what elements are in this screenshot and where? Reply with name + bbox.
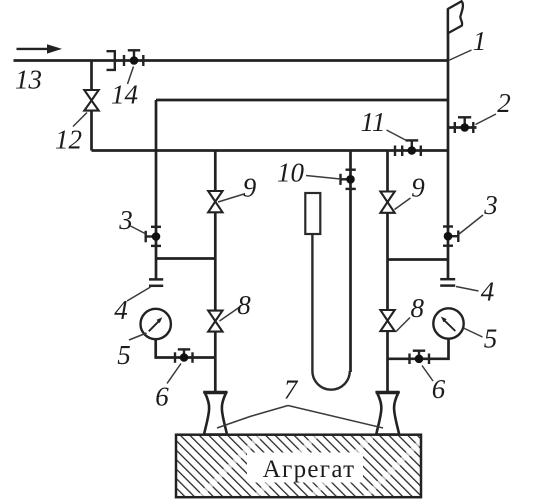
svg-text:9: 9: [243, 173, 257, 203]
svg-text:14: 14: [111, 80, 138, 110]
svg-text:8: 8: [237, 290, 251, 320]
valve 14 with coupling on H1: [107, 50, 144, 70]
svg-text:4: 4: [481, 277, 495, 307]
leader 6 left: [167, 364, 181, 384]
valve 8 right (bowtie): [380, 310, 394, 331]
leader 7 left: [217, 406, 288, 429]
leader 1: [449, 50, 472, 61]
wire H2 bypass line: [156, 99, 448, 102]
svg-text:11: 11: [361, 107, 386, 137]
leader 3 left: [131, 226, 146, 234]
manometer reservoir: [305, 193, 320, 234]
svg-text:12: 12: [55, 125, 82, 155]
leader 6 right: [422, 366, 433, 382]
leader 8 left: [220, 308, 240, 322]
wire left branch vertical: [155, 100, 158, 279]
wire H3 distribution line: [92, 149, 449, 152]
flow arrow: [17, 44, 63, 53]
valve 3 right: [443, 227, 458, 246]
U-tube manometer bend: [312, 234, 349, 390]
leader 5 right: [464, 328, 483, 337]
unit box Агрегат: [176, 434, 428, 500]
valve 3 left: [146, 227, 161, 246]
gauge 5 left: [141, 309, 171, 339]
svg-text:5: 5: [117, 340, 131, 370]
svg-text:Агрегат: Агрегат: [263, 456, 356, 483]
flag 1: [448, 1, 463, 33]
svg-text:4: 4: [114, 295, 128, 325]
valve 10: [341, 170, 356, 189]
leader 3 right: [459, 215, 484, 235]
svg-text:7: 7: [284, 375, 299, 405]
leader 4 right: [456, 287, 479, 292]
svg-text:8: 8: [411, 293, 425, 323]
valve 6 left: [175, 349, 193, 362]
svg-text:3: 3: [118, 205, 133, 235]
leader 11: [387, 130, 406, 140]
wire H4 right crossover: [388, 258, 449, 261]
svg-text:6: 6: [432, 374, 446, 404]
wire H4 left crossover: [156, 257, 215, 260]
valve 2: [448, 117, 477, 133]
venturi 7 right: [376, 392, 400, 434]
valve 9 right (bowtie): [380, 192, 394, 213]
svg-text:3: 3: [483, 190, 498, 220]
wire right gauge line: [388, 339, 449, 359]
svg-text:1: 1: [473, 26, 487, 56]
wire valve-12 drop: [90, 61, 93, 151]
valve 6 right: [410, 351, 430, 364]
svg-text:2: 2: [497, 88, 511, 118]
cap 4 left (blank flange): [149, 279, 163, 285]
leader 14: [128, 67, 134, 85]
leader 7 right: [288, 406, 383, 429]
leader 4 left: [127, 287, 151, 301]
svg-text:6: 6: [155, 382, 169, 412]
wire H1 main supply line: [14, 59, 449, 62]
leader 9 right: [395, 198, 411, 210]
gauge 5 right: [433, 308, 463, 338]
wire middle manometer vertical: [349, 151, 352, 373]
svg-text:9: 9: [411, 173, 425, 203]
leader 2: [476, 114, 497, 125]
wire left gauge line: [156, 338, 216, 358]
svg-text:13: 13: [15, 65, 42, 95]
venturi 7 left: [203, 392, 227, 434]
wire left main vertical: [214, 151, 217, 393]
leader lines: [73, 50, 496, 428]
wire right column vertical: [447, 9, 450, 279]
svg-text:5: 5: [484, 324, 498, 354]
svg-text:10: 10: [277, 158, 305, 188]
wire right main vertical: [386, 151, 389, 393]
leader 8 right: [396, 318, 410, 332]
leader 5 left: [129, 333, 147, 340]
valve 11: [395, 140, 421, 156]
valve 8 left (bowtie): [208, 311, 222, 332]
leader 12: [73, 113, 87, 127]
valve 9 left (bowtie): [208, 191, 222, 212]
valve 12 (bowtie): [84, 90, 98, 111]
leader 9 left: [218, 194, 244, 202]
leader 10: [306, 176, 341, 180]
cap 4 right (blank flange): [440, 279, 455, 285]
